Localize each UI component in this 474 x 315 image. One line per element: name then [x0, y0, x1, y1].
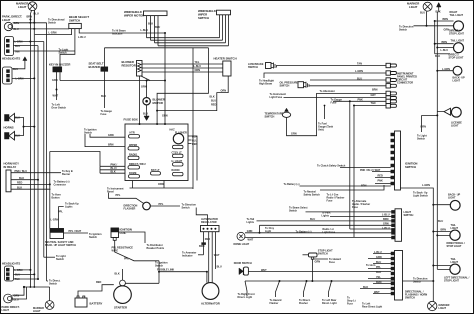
park/direct light (top left) [2, 15, 22, 32]
node headlight junction [29, 41, 31, 43]
svg-text:Light Switch: Light Switch [413, 194, 428, 197]
blower resistor [122, 60, 143, 76]
fuse DOME [129, 172, 140, 178]
wire wiper U line 2 [151, 39, 223, 41]
wire relay pin 1 [11, 172, 61, 174]
svg-text:LIGHT: LIGHT [18, 5, 27, 9]
wire coil resistance diagonal [115, 240, 159, 260]
horn/key-in relay K1 [4, 162, 20, 192]
svg-text:BRN: BRN [421, 126, 427, 129]
svg-text:LIGHT: LIGHT [33, 310, 41, 313]
wire park BLU to beam select [13, 28, 69, 30]
wire bundle vertical 1 [29, 20, 31, 288]
wire blower motor to ground [146, 105, 148, 116]
svg-text:WHT: WHT [248, 239, 254, 242]
svg-text:PPL: PPL [116, 194, 121, 197]
label To Light Switch stub [44, 256, 55, 258]
fuse H LIGHT [172, 160, 184, 166]
wire horns join [15, 118, 35, 136]
wire seat belt buzzer up [104, 48, 106, 67]
svg-text:Lights: Lights [322, 214, 330, 217]
svg-text:BLU: BLU [217, 266, 222, 269]
svg-text:BACK- UP LIGHT SWITCH: BACK- UP LIGHT SWITCH [45, 244, 76, 247]
svg-text:BLU: BLU [438, 220, 443, 223]
svg-text:HEATER SWITCH: HEATER SWITCH [214, 57, 237, 61]
svg-text:L-BLU: L-BLU [78, 36, 86, 39]
svg-text:RESISTOR: RESISTOR [122, 63, 136, 67]
svg-text:Safety Switch: Safety Switch [304, 194, 321, 197]
wire bundle vertical 5 (directional) [46, 23, 48, 281]
wire resistor-switch YEL [142, 63, 223, 65]
fuse WIPER [128, 144, 139, 150]
svg-text:Switch: Switch [48, 22, 57, 25]
svg-text:L-BLU: L-BLU [441, 49, 449, 52]
svg-text:BLK: BLK [101, 95, 106, 98]
svg-text:L-GRN: L-GRN [51, 219, 59, 222]
svg-text:YEL: YEL [195, 61, 200, 64]
svg-text:BUZZER: BUZZER [89, 65, 100, 69]
svg-text:SWITCH: SWITCH [404, 214, 414, 217]
wire fusible link [159, 272, 207, 283]
wire lower headlight 2 [14, 273, 35, 275]
wire oil switch to panel [310, 85, 387, 87]
svg-text:Indicator: Indicator [182, 254, 193, 257]
wire L-GRN vertical right [401, 188, 434, 301]
svg-text:SWITCH: SWITCH [280, 85, 290, 88]
low brake switch [248, 63, 277, 70]
svg-text:Buzzer: Buzzer [62, 173, 70, 176]
windshield wiper switch [198, 9, 231, 20]
ground blower motor [144, 116, 149, 121]
oil pressure switch [280, 82, 310, 88]
svg-text:RED: RED [17, 182, 22, 185]
wire marker light down (BLU, BRN) [30, 10, 34, 22]
svg-text:BLU: BLU [155, 26, 160, 29]
stop switch tab [311, 257, 313, 259]
svg-text:GRN: GRN [291, 133, 297, 136]
wire 2nd headlight L-GRN [12, 77, 34, 79]
wire headlight TAN [14, 50, 75, 52]
svg-text:Fuse: Fuse [352, 206, 358, 209]
horn 1 [5, 113, 21, 122]
wire park GRN [13, 22, 47, 24]
svg-text:Flasher: Flasher [270, 302, 279, 305]
svg-text:BLK: BLK [17, 187, 22, 190]
svg-text:BLK: BLK [148, 22, 153, 25]
svg-text:FUSIBLE LINK: FUSIBLE LINK [157, 269, 174, 272]
wire temp switch run [287, 93, 387, 135]
svg-text:BLU: BLU [15, 273, 20, 276]
svg-text:Switch: Switch [84, 132, 93, 135]
wire ignition battery feed [300, 185, 391, 187]
wire light switch 6 [245, 230, 392, 238]
wire fuse feeds PNK BLU BLK [100, 166, 125, 173]
svg-text:Unit): Unit) [318, 128, 324, 131]
wire stop switch right and down [312, 259, 328, 281]
svg-text:TAN: TAN [357, 63, 362, 66]
wire long vertical B [353, 106, 355, 230]
svg-text:Switch: Switch [413, 280, 422, 283]
wire fuse box bottom exit [133, 181, 165, 189]
svg-text:Door Switch: Door Switch [52, 107, 67, 110]
svg-text:L-BLU: L-BLU [382, 214, 390, 217]
svg-text:FUSE BOX: FUSE BOX [124, 118, 138, 122]
svg-text:BLK: BLK [363, 286, 368, 289]
svg-text:Rear Direct Light: Rear Direct Light [362, 305, 382, 308]
svg-text:BRN: BRN [27, 15, 33, 18]
svg-text:CONNECTOR: CONNECTOR [397, 81, 413, 84]
svg-text:TAIL LIGHT: TAIL LIGHT [450, 14, 464, 17]
svg-text:STOP LIGHT: STOP LIGHT [444, 279, 459, 282]
wire light switch 1 from beam select [306, 211, 392, 213]
svg-text:High Beam: High Beam [259, 82, 273, 85]
svg-text:STOP LIGHT: STOP LIGHT [449, 33, 464, 36]
svg-text:L-GRN: L-GRN [15, 269, 23, 272]
alternator regulator [201, 218, 220, 232]
wire bus ctsy [260, 224, 392, 226]
svg-text:WHT: WHT [214, 254, 220, 257]
svg-text:Switch: Switch [182, 206, 191, 209]
svg-text:SWITCH: SWITCH [265, 115, 275, 118]
wire tail1 feed BRN [435, 20, 454, 22]
seat belt buzzer [89, 61, 108, 71]
battery [75, 296, 103, 307]
svg-text:Breaker Points: Breaker Points [147, 247, 165, 250]
svg-text:PNK / BLU / WHT: PNK / BLU / WHT [360, 169, 381, 172]
svg-text:Fuse: Fuse [327, 200, 333, 203]
wire blower motor feed [146, 81, 148, 98]
svg-text:L-GRN: L-GRN [442, 68, 450, 71]
wire flasher right [150, 205, 180, 207]
svg-text:HTR: HTR [130, 132, 135, 135]
svg-text:Switch: Switch [289, 209, 298, 212]
svg-text:WHT: WHT [53, 95, 59, 98]
wire license feed [422, 112, 444, 132]
fanout 3 [304, 281, 307, 297]
marker light (lower) [33, 301, 54, 313]
wire bundle vertical 3 [37, 46, 39, 279]
wire vertical 438 [436, 12, 438, 269]
svg-text:BLK: BLK [210, 96, 215, 99]
wire starter solenoid up [122, 269, 124, 280]
svg-text:LIGHT: LIGHT [2, 18, 11, 22]
svg-text:PNK: PNK [378, 179, 383, 182]
wire ammeter stub [198, 254, 204, 256]
wire bundle vertical 4 [43, 42, 45, 258]
wire ctsy bus drop to dome wire [259, 225, 261, 233]
wire ignition feed BRN [85, 134, 125, 147]
svg-text:KEY-IN BUZZER: KEY-IN BUZZER [49, 63, 70, 67]
wire marker down and direction stub [414, 11, 454, 26]
svg-text:Switch: Switch [417, 137, 426, 140]
svg-text:Indicator: Indicator [112, 33, 123, 36]
fuse RADIO right [172, 169, 184, 176]
svg-text:Switch: Switch [49, 282, 58, 285]
wire resistor-switch ORN [142, 71, 223, 73]
svg-text:BLK: BLK [435, 55, 440, 58]
wire heater switch down chain [157, 76, 228, 111]
svg-text:To Clutch Safety Switch: To Clutch Safety Switch [317, 164, 346, 167]
svg-text:BLU: BLU [14, 28, 19, 31]
horn 2 [5, 131, 21, 140]
svg-text:BLK: BLK [15, 117, 20, 120]
svg-text:RED: RED [205, 238, 210, 241]
svg-text:L-BLU: L-BLU [382, 227, 390, 230]
svg-text:DOME LIGHT: DOME LIGHT [234, 243, 250, 246]
fuse BAT LT [151, 169, 161, 175]
svg-text:WHT: WHT [261, 269, 267, 272]
svg-text:YEL: YEL [376, 276, 381, 279]
tail light 4 [444, 258, 470, 283]
windshield wiper motor B1 [124, 10, 167, 18]
alternator [201, 283, 220, 306]
svg-text:RADIO: RADIO [172, 169, 180, 172]
svg-text:ALTERNATOR: ALTERNATOR [201, 301, 220, 305]
wire BLU pin3 [310, 79, 386, 81]
svg-text:BRN: BRN [442, 41, 448, 44]
instrument panel printed circuit connector [386, 63, 417, 108]
wire ignition switch leg [125, 261, 159, 284]
node blu junction [33, 28, 35, 30]
wire tail2 BRN [435, 43, 454, 45]
svg-text:WHT: WHT [374, 291, 380, 294]
svg-text:LIGHT: LIGHT [451, 227, 459, 230]
svg-text:Direct. Light: Direct. Light [322, 302, 337, 305]
svg-text:BLU /: BLU / [111, 167, 118, 170]
fuse HTR [129, 132, 140, 138]
wire fuel gauge stub [324, 106, 326, 120]
wire back-up feed [437, 70, 453, 72]
headlight connector (upper) [2, 37, 23, 61]
svg-text:BLK: BLK [111, 170, 116, 173]
wire back-up lower feed [433, 204, 450, 206]
fanout 4 [329, 281, 332, 297]
door switch [234, 262, 252, 275]
svg-text:RED: RED [211, 104, 216, 107]
wires regulator down [204, 232, 216, 283]
svg-text:ORN: ORN [158, 183, 164, 186]
wire heater feed vertical [192, 48, 194, 189]
wire lower park 1 [12, 287, 24, 295]
svg-text:LIGHT: LIGHT [2, 309, 10, 312]
wire resistor-switch L-BLU [142, 67, 223, 69]
svg-text:LIGHT: LIGHT [439, 307, 447, 310]
wire neutral switch right [64, 232, 89, 234]
ground arrow top right [436, 3, 442, 14]
wire seat belt branch down [157, 48, 208, 124]
wire bottom bus left [24, 286, 50, 288]
svg-text:To Alternator: To Alternator [320, 90, 335, 93]
neutral safety and back-up light switch [45, 229, 76, 248]
svg-text:PNK: PNK [358, 98, 363, 101]
svg-text:LIGHT: LIGHT [409, 5, 418, 9]
svg-text:L-BLU: L-BLU [141, 29, 149, 32]
wire long horizontal y79.5 [60, 80, 165, 82]
park/direct light (lower) [2, 294, 20, 312]
wires directional stubs [360, 254, 391, 294]
svg-text:GRN: GRN [247, 230, 253, 233]
direction flasher [124, 202, 151, 210]
wire pi loop [50, 152, 100, 167]
svg-text:STARTER: STARTER [114, 306, 127, 310]
wire tail2 second [437, 47, 453, 49]
node park junction [29, 22, 31, 24]
fanout 2 [276, 281, 280, 297]
svg-text:BRN: BRN [372, 89, 378, 92]
svg-text:PNK / BLU: PNK / BLU [15, 170, 28, 173]
svg-text:PPL: PPL [58, 210, 63, 213]
svg-text:SWITCH: SWITCH [248, 66, 258, 69]
fuse DIRECT/BKU [128, 163, 146, 169]
wire relay pin 4 [11, 188, 51, 190]
wire ignition feed GRN [90, 134, 125, 137]
node wiper junction [164, 32, 166, 34]
wire wiper U line 4 [158, 45, 229, 47]
svg-text:BRN: BRN [441, 229, 447, 232]
svg-text:HEADLIGHTS: HEADLIGHTS [2, 262, 20, 266]
svg-text:ORN: ORN [141, 86, 147, 89]
directional switch connector [391, 251, 427, 301]
wiper switch pin wires [220, 15, 229, 46]
tail light 3 [447, 224, 466, 248]
ignition coil [111, 228, 132, 241]
svg-text:Lights: Lights [247, 221, 255, 224]
svg-text:BLK: BLK [115, 273, 120, 276]
svg-text:L-GRN: L-GRN [355, 70, 363, 73]
wire tail4 feed [433, 266, 450, 270]
svg-text:PPL / WHT: PPL / WHT [69, 230, 82, 233]
wire light switch park lights [330, 216, 392, 218]
svg-text:L-BLU: L-BLU [194, 65, 202, 68]
svg-text:L-BLU: L-BLU [374, 251, 382, 254]
wire BLK stub [435, 53, 450, 55]
svg-text:BRN: BRN [383, 218, 389, 221]
svg-text:BLK: BLK [143, 113, 148, 116]
wire TAN bottom pin [354, 105, 386, 107]
svg-text:Fuse: Fuse [329, 261, 335, 264]
right tail light [449, 11, 464, 36]
hazard flasher [170, 128, 188, 143]
tail light 2 [449, 40, 465, 60]
svg-text:BLK: BLK [376, 271, 381, 274]
wiper motor pin wires [147, 16, 159, 46]
svg-text:BLU: BLU [357, 77, 362, 80]
svg-text:RED: RED [192, 143, 197, 146]
wires ignition stubs [340, 168, 391, 184]
svg-text:Switch: Switch [399, 28, 408, 31]
svg-text:Switch: Switch [56, 258, 65, 261]
wire wiper feed down to fuse box [164, 33, 166, 124]
svg-text:SWITCH: SWITCH [405, 296, 415, 299]
svg-text:Switch: Switch [89, 236, 98, 239]
wire relay pin 2 [11, 179, 38, 181]
svg-text:GRN: GRN [315, 261, 321, 264]
wire headlight L-GRN [14, 41, 44, 43]
svg-text:Fuse: Fuse [101, 113, 107, 116]
dome light [234, 232, 250, 246]
marker light (bottom right) [428, 301, 450, 310]
svg-text:BATTERY: BATTERY [90, 302, 103, 306]
svg-text:PPL: PPL [124, 258, 129, 261]
marker light (top left) [16, 2, 39, 16]
svg-text:To Battery (+): To Battery (+) [284, 183, 300, 186]
wire blower resistor to fuse box [139, 76, 141, 124]
wire 2nd headlight ground [12, 61, 25, 69]
fanout 1 [245, 281, 247, 296]
wire headlight BLU [14, 45, 39, 47]
ground arrow left [23, 57, 27, 61]
svg-text:GRN: GRN [444, 29, 450, 32]
wire high beam feed [264, 73, 386, 78]
wire battery to starter [78, 285, 114, 296]
wire relay pin 3 [11, 183, 50, 185]
wire marker lower up [49, 287, 51, 301]
wire fuse box exit run [130, 187, 194, 189]
wire dome to light switch battery [245, 232, 392, 234]
svg-text:PPL: PPL [376, 266, 381, 269]
wire neutral safety feed [320, 185, 384, 190]
svg-text:L-GRN: L-GRN [49, 32, 57, 35]
svg-text:PPL: PPL [159, 203, 164, 206]
wire light switch 5 [350, 212, 392, 229]
fuse CTSY LT [172, 151, 184, 157]
svg-text:LIGHT: LIGHT [451, 124, 459, 127]
wire low brake to panel [277, 65, 386, 67]
svg-text:Button: Button [52, 197, 61, 200]
svg-text:Fuse: Fuse [331, 101, 337, 104]
wire vertical 434 [434, 21, 436, 54]
svg-text:GRN: GRN [376, 256, 382, 259]
headlight connector (lower) [2, 262, 23, 281]
svg-text:LIGHT: LIGHT [451, 261, 459, 264]
svg-text:GRN: GRN [162, 114, 168, 117]
wire to back-up lights leg [59, 207, 64, 229]
svg-text:TAIL LIGHT: TAIL LIGHT [451, 40, 465, 43]
marker light (top right) [407, 2, 432, 15]
wire flasher feed diagonal [109, 193, 144, 204]
wire coil to distributor [119, 232, 146, 243]
wire stop switch left [303, 254, 309, 256]
wire lower park 2 [12, 287, 26, 299]
temperature switch [265, 108, 291, 118]
back-up light right [453, 66, 466, 82]
wire wiper U line 1 [147, 37, 220, 39]
wire pi left leg down to neutral switch [49, 152, 51, 229]
svg-text:WIPER MOTOR: WIPER MOTOR [124, 14, 144, 18]
svg-text:Switch: Switch [59, 52, 68, 55]
wire beam select L-BLU long [79, 29, 165, 33]
svg-text:ORN: ORN [221, 90, 227, 93]
wire door switch to directional connector [248, 271, 391, 273]
wire seat belt buzzer down [104, 71, 106, 108]
svg-text:To Horn: To Horn [366, 264, 376, 267]
wire seat belt feed line [105, 47, 209, 49]
wire lower headlight 3 [14, 278, 39, 280]
svg-text:IN RELAY: IN RELAY [4, 165, 17, 169]
svg-text:LIGHT: LIGHT [448, 196, 456, 199]
svg-text:Lights: Lights [65, 206, 73, 209]
wire fuse right stubs [188, 136, 197, 181]
svg-text:SWITCH: SWITCH [198, 16, 209, 20]
svg-text:GRN: GRN [383, 222, 389, 225]
svg-text:TAN: TAN [15, 278, 20, 281]
wire wiper U line 3 [155, 42, 226, 44]
svg-text:STOP LIGHT: STOP LIGHT [447, 245, 462, 248]
starter [114, 280, 132, 310]
key-in buzzer [49, 63, 70, 72]
svg-text:BLU: BLU [376, 261, 381, 264]
wire lower headlight 1 [14, 269, 31, 271]
